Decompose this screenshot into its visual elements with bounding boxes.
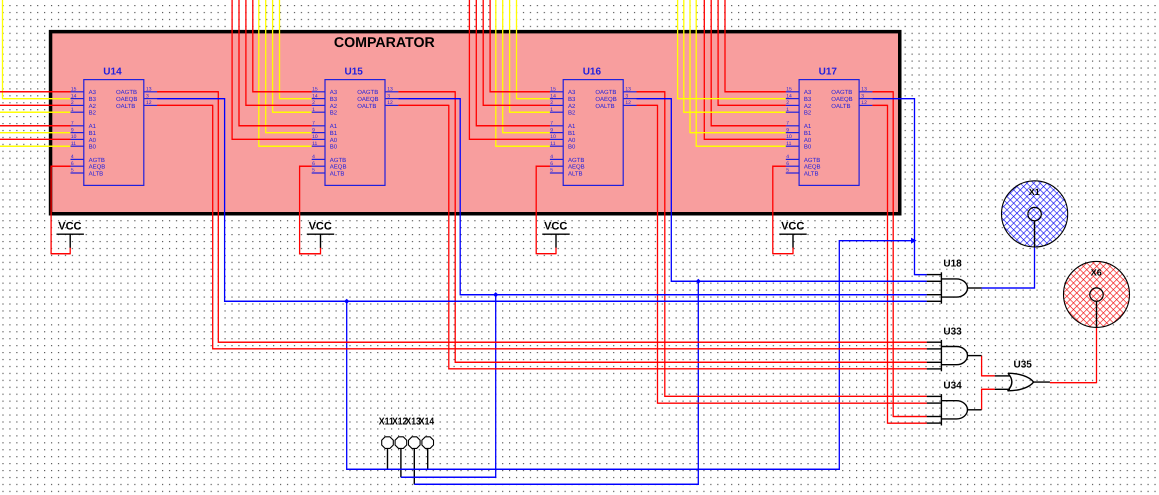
svg-text:11: 11 bbox=[550, 141, 555, 147]
svg-text:15: 15 bbox=[550, 87, 556, 93]
svg-text:B3: B3 bbox=[804, 96, 812, 103]
svg-text:AGTB: AGTB bbox=[330, 157, 346, 164]
svg-text:2: 2 bbox=[71, 100, 74, 106]
svg-text:10: 10 bbox=[550, 134, 556, 140]
svg-text:A1: A1 bbox=[89, 123, 97, 130]
svg-text:A0: A0 bbox=[804, 137, 812, 144]
svg-text:ALTB: ALTB bbox=[330, 170, 345, 177]
svg-text:X1: X1 bbox=[1029, 187, 1040, 197]
svg-text:15: 15 bbox=[312, 87, 318, 93]
svg-text:A1: A1 bbox=[568, 123, 576, 130]
svg-text:12: 12 bbox=[146, 100, 152, 106]
svg-text:15: 15 bbox=[71, 87, 77, 93]
svg-text:AEQB: AEQB bbox=[89, 164, 106, 171]
svg-text:14: 14 bbox=[786, 93, 792, 99]
svg-text:12: 12 bbox=[387, 100, 393, 106]
svg-text:OAEQB: OAEQB bbox=[116, 96, 137, 103]
svg-text:7: 7 bbox=[786, 121, 789, 127]
svg-text:3: 3 bbox=[146, 93, 149, 99]
svg-text:4: 4 bbox=[786, 154, 789, 160]
svg-text:OALTB: OALTB bbox=[357, 103, 376, 110]
svg-text:OALTB: OALTB bbox=[116, 103, 135, 110]
svg-text:11: 11 bbox=[312, 141, 317, 147]
svg-text:U14: U14 bbox=[103, 67, 122, 78]
svg-text:A2: A2 bbox=[89, 103, 97, 110]
svg-text:12: 12 bbox=[625, 100, 631, 106]
svg-text:3: 3 bbox=[625, 93, 628, 99]
svg-text:11: 11 bbox=[71, 141, 76, 147]
svg-text:OAGTB: OAGTB bbox=[116, 89, 137, 96]
svg-text:OAGTB: OAGTB bbox=[831, 89, 852, 96]
svg-text:1: 1 bbox=[550, 107, 553, 113]
svg-text:A2: A2 bbox=[330, 103, 338, 110]
svg-text:OAGTB: OAGTB bbox=[595, 89, 616, 96]
svg-text:B0: B0 bbox=[89, 144, 97, 151]
svg-text:A3: A3 bbox=[89, 89, 97, 96]
svg-text:ALTB: ALTB bbox=[89, 170, 104, 177]
svg-text:X14: X14 bbox=[419, 417, 435, 428]
svg-text:13: 13 bbox=[387, 87, 393, 93]
svg-text:U18: U18 bbox=[943, 259, 962, 270]
svg-text:10: 10 bbox=[786, 134, 792, 140]
svg-text:5: 5 bbox=[786, 168, 789, 174]
svg-text:X6: X6 bbox=[1091, 267, 1102, 277]
svg-text:13: 13 bbox=[861, 87, 867, 93]
svg-text:U17: U17 bbox=[819, 67, 838, 78]
svg-text:2: 2 bbox=[550, 100, 553, 106]
svg-text:4: 4 bbox=[312, 154, 315, 160]
svg-text:9: 9 bbox=[550, 127, 553, 133]
svg-text:12: 12 bbox=[861, 100, 867, 106]
svg-text:9: 9 bbox=[786, 127, 789, 133]
svg-text:7: 7 bbox=[312, 121, 315, 127]
svg-text:ALTB: ALTB bbox=[804, 170, 819, 177]
svg-text:AEQB: AEQB bbox=[568, 164, 585, 171]
svg-text:1: 1 bbox=[71, 107, 74, 113]
svg-text:14: 14 bbox=[550, 93, 556, 99]
svg-text:OAEQB: OAEQB bbox=[595, 96, 616, 103]
svg-text:6: 6 bbox=[550, 161, 553, 167]
svg-text:AGTB: AGTB bbox=[568, 157, 584, 164]
svg-text:B1: B1 bbox=[804, 130, 812, 137]
svg-text:B0: B0 bbox=[568, 144, 576, 151]
svg-text:U35: U35 bbox=[1014, 360, 1033, 371]
svg-text:A2: A2 bbox=[568, 103, 576, 110]
svg-text:1: 1 bbox=[786, 107, 789, 113]
svg-text:A1: A1 bbox=[330, 123, 338, 130]
svg-text:B2: B2 bbox=[89, 110, 97, 117]
svg-text:B1: B1 bbox=[89, 130, 97, 137]
svg-text:OALTB: OALTB bbox=[595, 103, 614, 110]
svg-text:OAGTB: OAGTB bbox=[357, 89, 378, 96]
svg-text:U15: U15 bbox=[345, 67, 364, 78]
svg-text:A0: A0 bbox=[89, 137, 97, 144]
svg-text:13: 13 bbox=[625, 87, 631, 93]
svg-text:3: 3 bbox=[387, 93, 390, 99]
svg-text:A3: A3 bbox=[330, 89, 338, 96]
svg-text:1: 1 bbox=[312, 107, 315, 113]
svg-text:AGTB: AGTB bbox=[89, 157, 105, 164]
svg-text:B2: B2 bbox=[568, 110, 576, 117]
svg-text:B3: B3 bbox=[568, 96, 576, 103]
svg-text:6: 6 bbox=[786, 161, 789, 167]
svg-text:2: 2 bbox=[786, 100, 789, 106]
svg-text:13: 13 bbox=[146, 87, 152, 93]
svg-text:10: 10 bbox=[312, 134, 318, 140]
svg-text:5: 5 bbox=[550, 168, 553, 174]
svg-text:U33: U33 bbox=[943, 326, 962, 337]
svg-text:OAEQB: OAEQB bbox=[357, 96, 378, 103]
svg-text:A1: A1 bbox=[804, 123, 812, 130]
svg-text:VCC: VCC bbox=[544, 221, 567, 233]
svg-text:OAEQB: OAEQB bbox=[831, 96, 852, 103]
svg-text:7: 7 bbox=[550, 121, 553, 127]
svg-text:AEQB: AEQB bbox=[804, 164, 821, 171]
svg-text:9: 9 bbox=[312, 127, 315, 133]
svg-text:A0: A0 bbox=[330, 137, 338, 144]
svg-text:6: 6 bbox=[312, 161, 315, 167]
svg-text:B1: B1 bbox=[330, 130, 338, 137]
svg-text:B0: B0 bbox=[330, 144, 338, 151]
svg-text:OALTB: OALTB bbox=[831, 103, 850, 110]
svg-text:U16: U16 bbox=[583, 67, 602, 78]
svg-text:VCC: VCC bbox=[309, 221, 332, 233]
svg-text:A3: A3 bbox=[804, 89, 812, 96]
svg-text:VCC: VCC bbox=[781, 221, 804, 233]
svg-text:7: 7 bbox=[71, 121, 74, 127]
svg-text:4: 4 bbox=[550, 154, 553, 160]
svg-text:COMPARATOR: COMPARATOR bbox=[334, 35, 435, 51]
svg-text:A0: A0 bbox=[568, 137, 576, 144]
svg-text:6: 6 bbox=[71, 161, 74, 167]
svg-text:A2: A2 bbox=[804, 103, 812, 110]
svg-text:ALTB: ALTB bbox=[568, 170, 583, 177]
svg-text:15: 15 bbox=[786, 87, 792, 93]
svg-text:3: 3 bbox=[861, 93, 864, 99]
svg-text:11: 11 bbox=[786, 141, 791, 147]
svg-text:U34: U34 bbox=[943, 381, 962, 392]
svg-text:2: 2 bbox=[312, 100, 315, 106]
svg-text:AGTB: AGTB bbox=[804, 157, 820, 164]
svg-text:10: 10 bbox=[71, 134, 77, 140]
svg-text:A3: A3 bbox=[568, 89, 576, 96]
svg-text:B0: B0 bbox=[804, 144, 812, 151]
svg-text:5: 5 bbox=[312, 168, 315, 174]
svg-text:VCC: VCC bbox=[58, 221, 81, 233]
svg-text:9: 9 bbox=[71, 127, 74, 133]
svg-text:B1: B1 bbox=[568, 130, 576, 137]
svg-text:14: 14 bbox=[312, 93, 318, 99]
svg-text:B3: B3 bbox=[89, 96, 97, 103]
svg-text:B2: B2 bbox=[804, 110, 812, 117]
svg-text:AEQB: AEQB bbox=[330, 164, 347, 171]
svg-text:B2: B2 bbox=[330, 110, 338, 117]
svg-text:4: 4 bbox=[71, 154, 74, 160]
svg-text:B3: B3 bbox=[330, 96, 338, 103]
svg-text:14: 14 bbox=[71, 93, 77, 99]
svg-text:5: 5 bbox=[71, 168, 74, 174]
